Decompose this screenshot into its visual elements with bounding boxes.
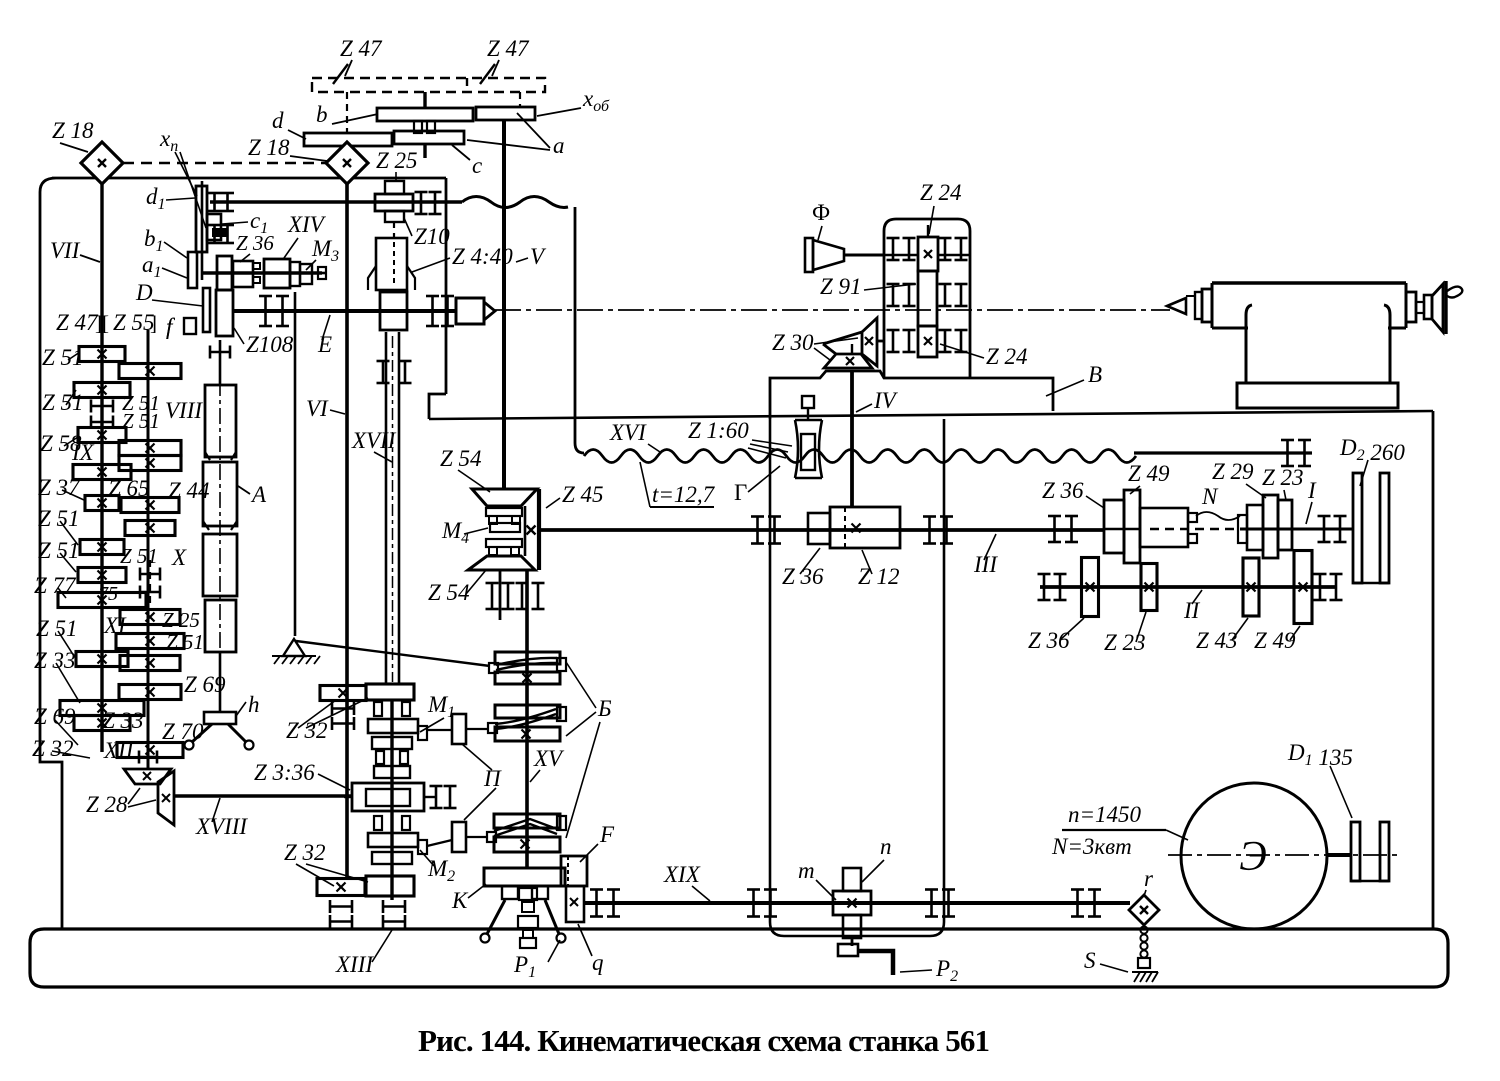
- clutch M4 inner: [486, 508, 522, 555]
- gear Z32 bottom left: [317, 879, 365, 896]
- svg-text:Z 69: Z 69: [34, 704, 76, 729]
- worm gear Г: [795, 396, 822, 478]
- label Z24 top: [920, 180, 962, 234]
- motor circle: [1181, 783, 1327, 929]
- svg-text:XIII: XIII: [335, 952, 374, 977]
- gear Z51 on shaft VII: [74, 383, 130, 398]
- svg-text:Z 24: Z 24: [920, 180, 962, 205]
- machine bed: [30, 929, 1448, 987]
- gearbox Z36-Z12: [808, 507, 900, 548]
- clutch M1 stack: [368, 702, 427, 778]
- shaft xn vertical: [201, 181, 204, 280]
- friction pair 1: [489, 652, 566, 684]
- label IX: [71, 440, 95, 465]
- svg-text:Z 28: Z 28: [86, 792, 128, 817]
- label c: [452, 145, 482, 178]
- label Z25 mid: [162, 608, 200, 632]
- label Z51 left column: [38, 506, 80, 531]
- gear Z24 bottom: [918, 326, 937, 357]
- gear Z65 on shaft VIII: [121, 498, 179, 513]
- pins between bars: [414, 121, 435, 133]
- label P fork: [462, 744, 502, 820]
- dashed chain line: [123, 162, 326, 164]
- gear Z55 on shaft VIII: [119, 364, 181, 379]
- svg-text:A: A: [250, 482, 267, 507]
- gear Z51 on shaft VIII: [119, 441, 181, 456]
- label Z51 left column: [38, 538, 80, 563]
- bearing XIII bottom: [383, 900, 405, 928]
- crank P2: [838, 938, 893, 975]
- label d1: [146, 184, 195, 213]
- shaft VII vertical: [100, 184, 103, 752]
- svg-text:][: ][: [95, 311, 109, 335]
- clutch F box: [561, 856, 587, 886]
- bevel gear Z54 top: [472, 489, 537, 506]
- label a1: [142, 252, 187, 281]
- label B housing: [1046, 362, 1102, 396]
- label Z51 left column: [36, 616, 78, 641]
- gear Z37 on shaft VII: [85, 496, 119, 511]
- svg-text:K: K: [451, 888, 469, 913]
- label Z23 I: [1262, 465, 1304, 500]
- shaft XIX: [583, 901, 1130, 905]
- svg-text:Z 3:36: Z 3:36: [254, 760, 315, 785]
- gear Z91: [918, 271, 937, 326]
- svg-text:E: E: [317, 332, 332, 357]
- headstock wavy break top: [462, 197, 568, 208]
- svg-text:q: q: [592, 950, 604, 975]
- housing right wall upper: [429, 178, 446, 419]
- label n=1450 N=3kvt: [1051, 802, 1188, 859]
- svg-text:Z 30: Z 30: [772, 330, 814, 355]
- svg-text:Z 51: Z 51: [120, 544, 158, 568]
- svg-text:Z 32: Z 32: [32, 736, 74, 761]
- svg-text:X: X: [171, 545, 187, 570]
- svg-text:a: a: [553, 133, 565, 158]
- bearing worm bottom: [377, 361, 412, 383]
- housing top-left gear cover outline: [40, 178, 446, 929]
- funnel F drive: [805, 238, 884, 272]
- svg-text:Z 51: Z 51: [36, 616, 78, 641]
- gear b1 a1: [188, 252, 197, 288]
- svg-text:Z 51: Z 51: [38, 506, 80, 531]
- label m: [798, 858, 836, 900]
- clutch M3: [233, 259, 326, 288]
- headstock right wall: [575, 207, 584, 453]
- gear d1: [196, 186, 207, 252]
- label Z43 II: [1196, 618, 1248, 653]
- svg-text:Б: Б: [597, 696, 612, 721]
- apron housing: [770, 419, 944, 936]
- svg-text:r: r: [1144, 866, 1154, 891]
- bevel Z28 pair: [124, 769, 174, 825]
- gearbox outline: [884, 219, 970, 378]
- label a: [467, 113, 565, 158]
- label P2: [900, 956, 958, 985]
- svg-text:Z 23: Z 23: [1262, 465, 1304, 490]
- gear Z36 on XIV: [217, 256, 232, 290]
- caption: [418, 1023, 990, 1058]
- clutch m n: [833, 868, 871, 938]
- labels mid column VIII: [122, 391, 203, 433]
- label 75: [98, 583, 118, 605]
- gear Z24 top: [884, 225, 970, 271]
- label Z36 apron: [782, 548, 824, 589]
- label II: [1183, 590, 1202, 623]
- gear Z108: [216, 290, 233, 336]
- label Z28: [86, 788, 156, 817]
- label XVIII: [195, 798, 248, 839]
- friction pair 2: [488, 705, 566, 741]
- label Z33 mid: [102, 708, 144, 733]
- label XI: [103, 613, 127, 638]
- headstock B bottom outline: [770, 371, 1053, 419]
- bearing II right: [1314, 574, 1343, 600]
- svg-text:Z108: Z108: [246, 332, 294, 357]
- svg-text:N=3квт: N=3квт: [1051, 834, 1132, 859]
- label Z36 mid: [236, 231, 274, 262]
- svg-text:Z 47: Z 47: [487, 36, 530, 61]
- svg-text:Z 51: Z 51: [38, 538, 80, 563]
- shaft XV vertical: [525, 570, 529, 868]
- svg-text:XVII: XVII: [351, 428, 397, 453]
- label t=12,7: [640, 462, 716, 507]
- svg-text:t=12,7: t=12,7: [652, 482, 716, 507]
- bearings gearbox top row: [887, 238, 968, 260]
- svg-text:Z 54: Z 54: [428, 580, 470, 605]
- label VI: [306, 396, 345, 421]
- label Z29: [1212, 459, 1266, 498]
- fork pin 2: [427, 822, 487, 852]
- gear Z51 on shaft VIII: [125, 521, 175, 536]
- svg-text:Z 91: Z 91: [820, 274, 862, 299]
- gear Z32 bottom right: [366, 876, 414, 896]
- svg-text:Z 47: Z 47: [340, 36, 383, 61]
- label Z58 left column: [40, 431, 82, 456]
- label E: [317, 315, 332, 357]
- bevel gear Z54 bottom: [468, 556, 535, 570]
- svg-text:c: c: [472, 153, 482, 178]
- svg-text:b: b: [316, 102, 328, 127]
- svg-text:XII: XII: [103, 738, 135, 763]
- svg-text:XVI: XVI: [609, 420, 647, 445]
- stem below c: [423, 144, 426, 158]
- svg-text:F: F: [599, 822, 615, 847]
- svg-text:Z 33: Z 33: [34, 648, 76, 673]
- svg-text:VI: VI: [306, 396, 329, 421]
- svg-text:XIV: XIV: [287, 212, 327, 237]
- svg-text:XV: XV: [533, 746, 565, 771]
- label A: [238, 482, 267, 507]
- label M3: [306, 236, 339, 270]
- chain S: [1132, 926, 1158, 982]
- label Z10: [404, 218, 450, 249]
- gear Z32 pair top right: [366, 684, 414, 700]
- gear K disc: [484, 868, 565, 886]
- label Z44: [168, 478, 210, 503]
- label M4: [441, 518, 488, 547]
- gear Z51 on shaft VII: [79, 347, 125, 362]
- svg-text:Z 51: Z 51: [166, 630, 204, 654]
- label Z49 II: [1254, 626, 1300, 653]
- label r: [1144, 866, 1154, 896]
- svg-text:D: D: [135, 280, 153, 305]
- gear Z51 on shaft VII: [80, 540, 124, 555]
- label x_ob: [537, 86, 610, 116]
- svg-text:Z 51: Z 51: [122, 409, 160, 433]
- disc D: [203, 288, 210, 332]
- spindle centerline: [495, 309, 1170, 311]
- svg-text:Z 65: Z 65: [108, 476, 150, 501]
- clutch M2 stack: [368, 816, 427, 864]
- label q: [578, 924, 604, 975]
- svg-text:Ф: Ф: [812, 200, 830, 225]
- svg-text:Z 24: Z 24: [986, 344, 1028, 369]
- label Z69 mid: [184, 672, 226, 697]
- svg-text:XIX: XIX: [663, 862, 701, 887]
- label XIII: [335, 930, 392, 977]
- svg-text:Z 43: Z 43: [1196, 628, 1238, 653]
- label Z51 mid: [166, 630, 204, 654]
- svg-text:Г: Г: [734, 480, 747, 505]
- svg-text:Z 12: Z 12: [858, 564, 900, 589]
- label XII: [103, 738, 135, 763]
- shaft III: [541, 528, 1105, 532]
- svg-text:Z 1:60: Z 1:60: [688, 418, 749, 443]
- svg-text:Z 25: Z 25: [162, 608, 200, 632]
- svg-text:Z 36: Z 36: [1028, 628, 1070, 653]
- shaft VIII-X-XII vertical: [139, 330, 157, 769]
- gear Z44 on shaft VIII: [119, 456, 181, 471]
- pinion f: [184, 318, 196, 334]
- tailstock center cone: [1167, 296, 1195, 314]
- label Z91: [820, 274, 916, 299]
- gear Z23 II: [1141, 564, 1157, 611]
- label K: [451, 884, 486, 913]
- svg-text:Z 18: Z 18: [248, 135, 290, 160]
- label B friction: [566, 662, 612, 838]
- label Z23 II: [1104, 612, 1146, 655]
- gear Z49 on I: [1124, 490, 1140, 563]
- label xn: [159, 126, 206, 228]
- svg-text:I: I: [1307, 478, 1317, 503]
- svg-text:XI: XI: [103, 613, 127, 638]
- label Z32 upper: [286, 698, 368, 743]
- svg-text:Z 55: Z 55: [113, 310, 155, 335]
- feed box right wall: [1432, 411, 1435, 930]
- bearing VI below Z32: [332, 702, 354, 730]
- feed box top edge: [429, 411, 1433, 419]
- gear Z36 II: [1082, 558, 1099, 617]
- svg-text:Z 36: Z 36: [1042, 478, 1084, 503]
- label Z70: [162, 719, 204, 744]
- label Z108: [234, 328, 294, 357]
- svg-text:Z 36: Z 36: [782, 564, 824, 589]
- bearing leadscrew right: [1281, 440, 1311, 466]
- label Z1:60: [688, 418, 792, 458]
- bearing shaft VII upper: [91, 400, 113, 429]
- svg-text:Z 51: Z 51: [42, 345, 84, 370]
- diamond gear Z18 right: [326, 142, 368, 184]
- svg-text:N: N: [1201, 484, 1219, 509]
- label Z54 bottom: [428, 570, 486, 605]
- label Z24 bottom: [940, 344, 1028, 369]
- label XVI: [609, 420, 660, 452]
- bearing below box: [486, 570, 545, 620]
- svg-text:]: ]: [150, 311, 157, 335]
- bearing I left: [1048, 516, 1078, 542]
- rack bar d: [304, 133, 392, 146]
- lever arm: [296, 641, 490, 666]
- shaft II: [1040, 585, 1336, 589]
- label Z32 lower: [284, 840, 368, 886]
- label F: [580, 822, 615, 862]
- pulley D1: [1351, 822, 1389, 881]
- svg-text:Z10: Z10: [414, 224, 450, 249]
- cam drum A: [203, 340, 237, 712]
- gear Z70 on shaft VIII: [117, 743, 183, 758]
- label n: [862, 834, 892, 882]
- label D2 260: [1339, 435, 1405, 486]
- rack dashed outline Z47: [312, 78, 545, 92]
- svg-text:II: II: [1183, 598, 1201, 623]
- rack bar b: [377, 108, 473, 121]
- shaft XVII tube: [386, 332, 399, 684]
- solid stem: [423, 92, 426, 108]
- gear Z51 on shaft VIII: [120, 656, 180, 671]
- svg-text:Z 29: Z 29: [1212, 459, 1254, 484]
- label Z33 left column: [34, 648, 76, 673]
- shaft XVIII: [174, 794, 352, 798]
- bevel Z30 pair: [823, 318, 884, 368]
- svg-text:h: h: [248, 692, 260, 717]
- label b1: [144, 226, 187, 258]
- gear Z29: [1263, 495, 1278, 558]
- motor shaft: [1327, 853, 1352, 857]
- label Z77 left column: [34, 573, 77, 598]
- clutch q: [566, 886, 584, 922]
- gear IX gear on shaft VII: [73, 465, 131, 480]
- label Z37 left column: [38, 475, 81, 500]
- shaft E: [233, 309, 456, 313]
- svg-text:m: m: [798, 858, 815, 883]
- label Z18 left: [52, 118, 94, 152]
- label III: [973, 534, 998, 577]
- label Z51 left column: [42, 345, 84, 370]
- svg-text:Z 36: Z 36: [236, 231, 274, 255]
- svg-text:Z 4:40: Z 4:40: [452, 244, 513, 269]
- spline dashed section shaft X: [140, 560, 160, 606]
- label XIV: [284, 212, 327, 258]
- svg-text:Э: Э: [1239, 834, 1267, 880]
- svg-text:Z 49: Z 49: [1128, 461, 1170, 486]
- label VII: [50, 238, 100, 263]
- gear Z51 on shaft VIII: [116, 634, 184, 649]
- shaft XIV horizontal: [202, 271, 322, 274]
- bearing III mid: [923, 517, 953, 544]
- headstock inner top edge: [210, 200, 462, 204]
- gear Z25 on shaft VIII: [120, 610, 180, 625]
- slider block I: [1140, 508, 1197, 547]
- diamond gear Z18 left: [81, 142, 123, 184]
- fork pin 1: [427, 714, 489, 744]
- svg-text:Z 70: Z 70: [162, 719, 204, 744]
- label b: [316, 102, 378, 127]
- bearing XIX mid: [747, 890, 777, 917]
- svg-text:75: 75: [98, 583, 118, 605]
- gear Z69 on shaft VII: [74, 716, 130, 731]
- bearing XIX right: [1071, 890, 1101, 917]
- rack tick marks: [333, 64, 495, 84]
- label Z30: [772, 330, 858, 360]
- label Z36 I: [1042, 478, 1104, 508]
- bearing XIX left: [590, 890, 620, 917]
- label S: [1084, 948, 1128, 973]
- bearing II left: [1038, 574, 1067, 600]
- bearing E right: [426, 296, 454, 326]
- shaft I line: [1105, 528, 1353, 531]
- svg-text:n: n: [880, 834, 892, 859]
- gear Z25 on XVII: [375, 181, 413, 222]
- label D: [135, 280, 203, 306]
- svg-text:Z 45: Z 45: [562, 482, 604, 507]
- gear Z23 on I: [1278, 500, 1292, 550]
- svg-text:Рис. 144. Кинематическая схема: Рис. 144. Кинематическая схема станка 56…: [418, 1023, 990, 1058]
- label c1: [222, 208, 268, 237]
- label XV: [530, 746, 565, 782]
- tailstock handwheel: [1406, 281, 1462, 334]
- leadscrew wavy XVI: [584, 450, 1312, 463]
- label Z25 top: [376, 148, 418, 182]
- tailstock body: [1195, 283, 1406, 408]
- leader lines left labels: [52, 352, 90, 758]
- bevel box Z45: [525, 489, 539, 570]
- label Ф: [812, 200, 830, 240]
- label I: [1306, 478, 1317, 524]
- gear c1: [207, 214, 221, 240]
- gear Z33 on shaft VII: [60, 701, 144, 716]
- stand h: [185, 712, 254, 750]
- label h: [236, 692, 260, 717]
- label Z51 left column: [42, 390, 84, 415]
- label f2: [166, 314, 176, 339]
- label Z18 right: [248, 135, 327, 161]
- shaft XVII dashed: [393, 222, 395, 240]
- label Z47 right: [487, 36, 530, 76]
- label N: [1196, 484, 1240, 520]
- svg-text:d: d: [272, 108, 284, 133]
- pivot support: [272, 639, 320, 664]
- label d: [272, 108, 306, 139]
- gear Z58 on shaft VII: [78, 428, 126, 443]
- gear Z49 II: [1294, 551, 1312, 624]
- bearing XIX mid2: [925, 890, 955, 917]
- handwheel P1 parts: [481, 886, 566, 948]
- label Z3:36: [254, 760, 350, 790]
- svg-text:IV: IV: [873, 388, 899, 413]
- bearing VI bottom: [330, 900, 352, 928]
- gear Z32 pair top left: [320, 686, 366, 701]
- svg-text:Z 25: Z 25: [376, 148, 418, 173]
- bearing drum A top: [210, 346, 230, 359]
- gear Z51 on shaft VII: [78, 568, 126, 583]
- label Z49 I: [1128, 461, 1170, 494]
- worm Z3:36: [344, 783, 457, 811]
- svg-text:Z 77: Z 77: [34, 573, 77, 598]
- spindle chuck: [456, 298, 495, 324]
- label Z54 top: [440, 446, 490, 492]
- label Z36 II: [1028, 618, 1084, 653]
